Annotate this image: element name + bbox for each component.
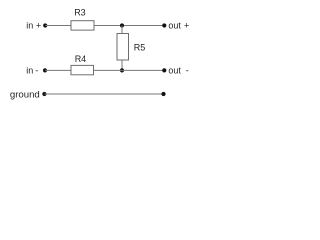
svg-text:-: - [186,65,189,75]
svg-text:out: out [168,65,181,75]
node out - dot [162,68,166,72]
resistor R3 [71,21,94,30]
svg-text:R4: R4 [75,54,87,64]
svg-text:out: out [168,20,181,30]
resistor R4 [71,65,94,74]
resistor R5 [117,34,129,61]
wire top net to R5 [121,26,123,34]
node in + junction dot [43,23,47,27]
ground end dot right [161,92,165,96]
svg-text:in: in [26,21,33,31]
svg-text:in: in [26,65,33,75]
wire in- to R4 [45,69,71,71]
wire in+ to R3 [45,25,71,27]
node in - junction dot [43,68,47,72]
node out + dot [162,23,166,27]
wire R3 to out+ [94,25,164,27]
svg-text:+: + [184,20,189,30]
wire R4 to out- [94,69,165,71]
wire R5 to bottom net [121,60,123,70]
ground wire [44,93,163,95]
svg-text:-: - [35,65,38,75]
ground junction dot left [42,92,46,96]
svg-text:R3: R3 [74,8,86,18]
junction dot bottom of R5 [120,68,124,72]
svg-text:ground: ground [10,90,40,101]
svg-text:R5: R5 [134,43,146,53]
junction dot top of R5 [120,23,124,27]
svg-text:+: + [36,21,41,31]
